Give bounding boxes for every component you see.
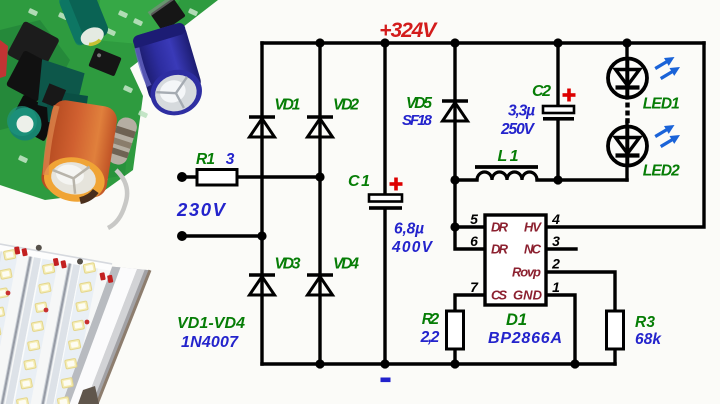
pcb wire loop xyxy=(108,170,127,228)
node bottom rail / R2 xyxy=(450,359,459,368)
svg-text:SF18: SF18 xyxy=(402,112,433,129)
pcb dark teal block xyxy=(35,59,86,115)
diode VD3 xyxy=(249,273,275,277)
svg-text:R1: R1 xyxy=(196,151,215,168)
svg-text:1N4007: 1N4007 xyxy=(181,334,239,351)
svg-text:LED2: LED2 xyxy=(643,163,680,180)
svg-text:5: 5 xyxy=(470,211,478,227)
led panel B xyxy=(0,250,70,404)
node top rail / LED xyxy=(622,38,631,47)
node top rail / C2 xyxy=(553,38,562,47)
led aluminium band xyxy=(62,267,150,404)
pcb blue capacitor xyxy=(132,22,209,122)
plus sign C1 xyxy=(390,178,403,191)
svg-text:VD5: VD5 xyxy=(406,95,432,112)
pcb teal cap top xyxy=(58,0,113,51)
svg-text:HV: HV xyxy=(524,220,542,235)
IC pin numbers xyxy=(470,211,560,295)
svg-text:DR: DR xyxy=(491,220,509,235)
wire pin1 GND down xyxy=(546,295,575,364)
svg-text:VD1-VD4: VD1-VD4 xyxy=(177,315,245,332)
diode VD2 xyxy=(307,115,333,119)
svg-text:400V: 400V xyxy=(391,239,434,256)
node AC bottom terminal xyxy=(177,231,187,241)
svg-text:D1: D1 xyxy=(506,311,527,329)
inductor L1 xyxy=(475,167,538,180)
diode symbols xyxy=(249,101,468,295)
node AC bottom / VD1 column xyxy=(257,231,266,240)
svg-text:2: 2 xyxy=(551,256,560,272)
svg-text:7: 7 xyxy=(470,279,479,295)
led red resistors xyxy=(14,246,113,283)
svg-text:3: 3 xyxy=(226,151,235,168)
svg-text:3: 3 xyxy=(552,233,560,249)
diode VD1 xyxy=(249,115,275,119)
led panel base xyxy=(0,244,112,404)
svg-text:4: 4 xyxy=(551,211,560,227)
LED2 light arrows xyxy=(653,121,677,140)
led screw holes xyxy=(36,245,42,251)
pcb orange capacitor xyxy=(38,98,119,206)
node bottom rail / GND wire xyxy=(570,359,579,368)
node dots xyxy=(177,38,632,368)
node top rail / C1 xyxy=(380,38,389,47)
svg-text:C1: C1 xyxy=(348,173,370,190)
node VD5 column / L1 row xyxy=(450,175,459,184)
wire R3 bottom xyxy=(613,349,616,364)
wire pin5 stub xyxy=(454,225,485,228)
wire pin2 to R3 xyxy=(546,272,615,311)
svg-text:1: 1 xyxy=(552,279,560,295)
pcb ic chip small top xyxy=(148,0,187,33)
wire top rail +324V xyxy=(262,41,704,44)
node top rail / VD2 xyxy=(315,38,324,47)
LED2 symbol xyxy=(608,127,647,166)
pcb teal ring cap xyxy=(9,108,42,141)
led panel C xyxy=(31,257,112,404)
node VD5 column / pin5 xyxy=(450,222,459,231)
pcb red component left edge xyxy=(0,40,8,78)
minus terminal xyxy=(381,378,391,383)
wire C2 column xyxy=(556,43,559,106)
LED1 light arrows xyxy=(653,53,677,72)
svg-text:230V: 230V xyxy=(176,199,227,220)
diode VD4 xyxy=(307,273,333,277)
node bottom rail / C1 xyxy=(380,359,389,368)
wire AC bottom xyxy=(182,234,262,237)
svg-text:NC: NC xyxy=(524,242,542,257)
wire pin7 to R2 xyxy=(455,295,485,311)
pcb ic chip mid xyxy=(88,47,121,76)
diode VD5 xyxy=(442,99,468,103)
led panel grooves xyxy=(0,249,34,404)
svg-text:3,3µ: 3,3µ xyxy=(508,103,535,120)
wire VD1/VD3 column xyxy=(260,43,263,364)
dotted link between LED1 and LED2 xyxy=(625,103,629,124)
led diffuser band B xyxy=(2,252,60,404)
wire VD2/VD4 column xyxy=(318,43,321,364)
resistor R2 xyxy=(447,311,464,349)
node bottom rail / VD4 xyxy=(315,359,324,368)
pcb board base xyxy=(0,0,218,200)
svg-text:VD4: VD4 xyxy=(333,256,359,273)
LED1 symbol xyxy=(608,59,647,98)
svg-text:6: 6 xyxy=(470,233,478,249)
svg-text:VD1: VD1 xyxy=(274,97,300,114)
svg-text:VD2: VD2 xyxy=(333,97,359,114)
led panel top end caps xyxy=(0,244,112,271)
wire right rail to pin4 HV xyxy=(546,43,704,227)
svg-text:+324V: +324V xyxy=(379,19,438,42)
svg-text:C2: C2 xyxy=(532,83,551,100)
svg-text:DR: DR xyxy=(491,242,509,257)
wire AC top with R1 xyxy=(182,175,197,178)
led chips xyxy=(0,249,96,404)
wire LED column bottom xyxy=(625,122,628,180)
svg-text:Rovp: Rovp xyxy=(512,265,541,280)
pcb darker regions xyxy=(0,20,70,130)
node AC top terminal xyxy=(177,172,187,182)
svg-text:VD3: VD3 xyxy=(275,256,301,273)
plus sign C2 xyxy=(563,89,576,102)
wire LED column top xyxy=(625,43,628,98)
wire bottom rail xyxy=(262,362,615,365)
svg-text:2,2: 2,2 xyxy=(420,329,440,346)
svg-text:R2: R2 xyxy=(422,311,440,328)
wire L1 row xyxy=(455,178,477,181)
led diffuser band A xyxy=(0,245,19,404)
svg-text:6,8µ: 6,8µ xyxy=(394,221,424,238)
node C2 / L1 row xyxy=(553,175,562,184)
IC U1 body D1 xyxy=(485,215,546,305)
svg-text:GND: GND xyxy=(513,288,543,303)
node R1 wire / VD2 column xyxy=(315,172,324,181)
wire C1 column xyxy=(383,43,386,194)
resistor R3 xyxy=(607,311,624,349)
pcb small black chip xyxy=(42,83,66,108)
pcb dark connector blocks xyxy=(6,21,60,142)
wire VD5 column down to pin6 xyxy=(455,43,485,249)
resistor R1 xyxy=(197,170,237,186)
wire R2 bottom xyxy=(453,349,456,364)
led diffuser band C xyxy=(41,259,100,404)
pcb grey resistor xyxy=(105,115,139,167)
svg-text:BP2866A: BP2866A xyxy=(488,330,562,347)
pcb pads xyxy=(18,8,198,183)
led panel A xyxy=(0,244,31,404)
capacitor C1 xyxy=(369,195,402,210)
svg-text:250V: 250V xyxy=(500,121,536,138)
svg-text:68k: 68k xyxy=(635,331,662,348)
node top rail / VD5 xyxy=(450,38,459,47)
svg-text:R3: R3 xyxy=(635,314,655,331)
led band right edge xyxy=(97,270,150,404)
IC pin names xyxy=(491,220,543,303)
svg-text:CS: CS xyxy=(491,288,507,303)
capacitor C2 xyxy=(543,106,574,121)
wire pin3 stub xyxy=(546,247,576,250)
svg-text:LED1: LED1 xyxy=(643,96,680,113)
